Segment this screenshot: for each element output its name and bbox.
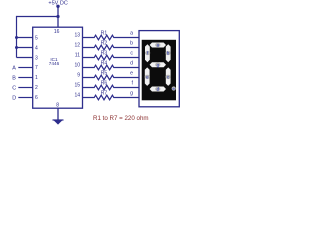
svg-text:R5: R5 bbox=[101, 70, 108, 76]
+5V terminal dot bbox=[56, 5, 59, 8]
svg-text:R1: R1 bbox=[101, 30, 108, 36]
segment b badge bbox=[166, 51, 171, 55]
segment g bbox=[150, 62, 166, 67]
svg-text:A: A bbox=[12, 66, 16, 72]
svg-text:f: f bbox=[132, 80, 134, 86]
junction dot pin 5 bbox=[15, 36, 18, 39]
svg-text:R1 to R7 = 220 ohm: R1 to R7 = 220 ohm bbox=[93, 115, 149, 122]
resistor R1 bbox=[83, 35, 140, 40]
svg-text:dp: dp bbox=[172, 87, 176, 91]
svg-text:8: 8 bbox=[56, 102, 59, 108]
svg-text:13: 13 bbox=[74, 32, 80, 38]
svg-text:6: 6 bbox=[35, 95, 38, 101]
wire +5V vertical bbox=[57, 6, 59, 27]
svg-text:R3: R3 bbox=[101, 50, 108, 56]
svg-text:4: 4 bbox=[35, 46, 38, 52]
resistor R2 bbox=[83, 45, 140, 50]
segment e badge bbox=[145, 75, 150, 79]
segment g badge bbox=[155, 63, 160, 67]
svg-text:12: 12 bbox=[74, 42, 80, 48]
svg-text:3: 3 bbox=[35, 56, 38, 62]
wire +5V branch horizontal bbox=[17, 16, 59, 18]
junction dot on +5V rail bbox=[56, 15, 59, 18]
svg-text:7: 7 bbox=[35, 65, 38, 71]
svg-text:R4: R4 bbox=[101, 60, 108, 66]
svg-text:1: 1 bbox=[35, 75, 38, 81]
wire left supply rail vertical bbox=[16, 16, 18, 58]
wire input C bbox=[18, 87, 32, 89]
IC U1 7446 box bbox=[33, 27, 83, 108]
wire stub to pin 4 bbox=[17, 47, 33, 49]
segment d bbox=[150, 87, 166, 92]
segment a badge bbox=[155, 43, 160, 47]
segment f bbox=[145, 44, 150, 62]
svg-text:a: a bbox=[130, 30, 133, 36]
resistor R5 bbox=[83, 75, 140, 80]
7-segment display black face bbox=[142, 40, 176, 101]
segment c badge bbox=[166, 75, 171, 79]
wire stub to pin 5 bbox=[17, 37, 33, 39]
svg-text:c: c bbox=[130, 50, 133, 56]
wire input B bbox=[18, 77, 32, 79]
decimal point dp bbox=[172, 86, 176, 90]
svg-text:R2: R2 bbox=[101, 40, 108, 46]
wire stub to pin 3 bbox=[17, 57, 33, 59]
junction dot pin 4 bbox=[15, 46, 18, 49]
svg-text:d: d bbox=[130, 60, 133, 66]
svg-text:B: B bbox=[12, 76, 16, 82]
wire input D bbox=[18, 97, 32, 99]
svg-text:g: g bbox=[130, 90, 133, 96]
resistor R3 bbox=[83, 55, 140, 60]
resistor R4 bbox=[83, 65, 140, 70]
svg-text:14: 14 bbox=[74, 92, 80, 98]
svg-text:16: 16 bbox=[54, 29, 60, 35]
svg-text:b: b bbox=[130, 40, 133, 46]
ground symbol bbox=[53, 119, 64, 121]
segment c bbox=[166, 67, 171, 86]
svg-text:15: 15 bbox=[74, 82, 80, 88]
svg-text:e: e bbox=[130, 70, 133, 76]
svg-text:2: 2 bbox=[35, 85, 38, 91]
svg-text:C: C bbox=[12, 86, 16, 92]
svg-text:9: 9 bbox=[77, 72, 80, 78]
segment f badge bbox=[145, 51, 150, 55]
svg-text:11: 11 bbox=[75, 52, 80, 58]
resistor R7 bbox=[83, 95, 140, 100]
svg-text:10: 10 bbox=[74, 62, 80, 68]
svg-text:5: 5 bbox=[35, 36, 38, 42]
svg-text:7446: 7446 bbox=[49, 61, 60, 66]
segment a bbox=[150, 43, 166, 48]
svg-text:R6: R6 bbox=[101, 80, 108, 86]
segment b bbox=[166, 44, 171, 62]
ground wire stub pin 8 bbox=[57, 108, 59, 120]
wire input A bbox=[18, 67, 32, 69]
svg-text:D: D bbox=[12, 96, 16, 102]
segment d badge bbox=[155, 87, 160, 91]
7-segment display module box bbox=[139, 31, 179, 107]
segment e bbox=[145, 67, 150, 86]
resistor R6 bbox=[83, 85, 140, 90]
svg-text:R7: R7 bbox=[101, 90, 108, 96]
